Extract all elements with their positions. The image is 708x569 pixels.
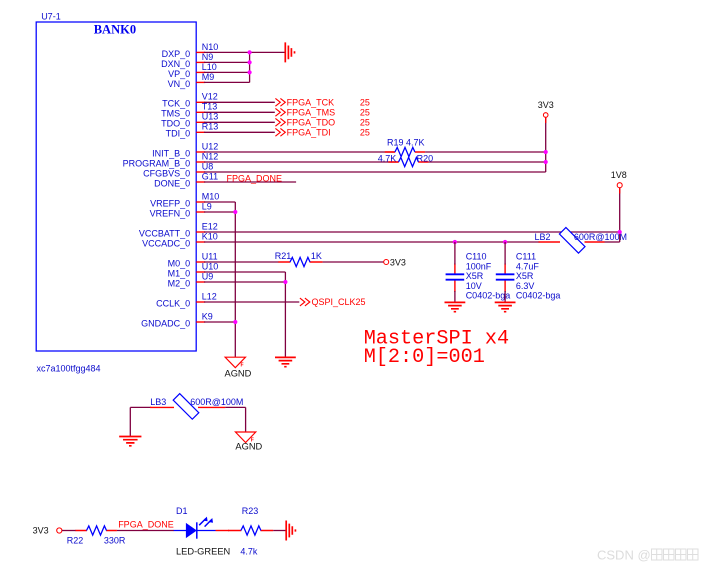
pin INIT_B_0 stub	[196, 151, 205, 153]
resistor R19 pins	[385, 151, 425, 153]
resistor R21 pins	[278, 261, 322, 263]
svg-text:L10: L10	[202, 62, 217, 72]
svg-text:VP_0: VP_0	[168, 69, 190, 79]
wire C111 to ground	[504, 291, 506, 302]
ground GND (LED)	[286, 521, 295, 541]
svg-text:FPGA_TDI: FPGA_TDI	[287, 128, 331, 138]
capacitor C110 leads	[454, 264, 456, 293]
svg-text:1V8: 1V8	[611, 170, 627, 180]
port chevron FPGA_TDI	[275, 128, 285, 136]
svg-text:600R@100M: 600R@100M	[190, 397, 243, 407]
svg-text:M2_0: M2_0	[168, 278, 191, 288]
resistor R21 body	[290, 257, 310, 266]
svg-text:U7-1: U7-1	[41, 12, 61, 22]
svg-text:M1_0: M1_0	[168, 268, 191, 278]
svg-text:25: 25	[360, 128, 370, 138]
svg-text:VCCBATT_0: VCCBATT_0	[139, 228, 190, 238]
wire LB3 to AGND corner	[225, 406, 245, 408]
junction VP/vertical	[248, 70, 252, 74]
svg-text:CSDN @: CSDN @	[597, 548, 651, 563]
svg-text:R19 4.7K: R19 4.7K	[387, 138, 425, 148]
wire VCCADC_0 to LB2	[204, 241, 540, 243]
wire VREFN_0	[204, 211, 235, 213]
resistor R23 pins	[228, 530, 273, 532]
pin TCK_0 stub	[196, 101, 205, 103]
wire R19 to 3V3 rail	[425, 151, 546, 153]
watermark CJK glyph blocks	[652, 549, 663, 560]
svg-text:M9: M9	[202, 72, 215, 82]
svg-text:L9: L9	[202, 201, 212, 211]
junction VREFN/vertical	[233, 210, 237, 214]
svg-text:FPGA_TDO: FPGA_TDO	[287, 118, 336, 128]
svg-text:AGND: AGND	[235, 441, 262, 451]
ground GND (mode pins)	[275, 357, 296, 366]
junction INIT/3V3 rail	[544, 150, 548, 154]
pin DONE_0 stub	[196, 181, 205, 183]
resistor R20 body	[399, 157, 419, 166]
capacitor C111 body	[496, 274, 515, 279]
junction C111/VCCADC	[503, 240, 507, 244]
svg-text:T13: T13	[202, 102, 218, 112]
svg-text:100nF: 100nF	[466, 261, 492, 271]
svg-text:DXN_0: DXN_0	[161, 59, 190, 69]
pin DXP_0 stub	[196, 51, 205, 53]
svg-text:TCK_0: TCK_0	[162, 99, 190, 109]
wire M1/M2 ground vertical	[284, 272, 286, 357]
svg-text:U13: U13	[202, 112, 219, 122]
svg-text:DXP_0: DXP_0	[162, 49, 191, 59]
wire VP_0 row	[204, 71, 250, 73]
wire DONE_0 / FPGA_DONE	[204, 181, 296, 183]
pin PROGRAM_B_0 stub	[196, 161, 205, 163]
IC U7 BANK0 body	[36, 22, 196, 351]
power port 3V3 (M0)	[384, 260, 389, 265]
capacitor C110 body	[446, 274, 465, 279]
svg-text:U8: U8	[202, 161, 214, 171]
wire VCCADC to C111	[504, 242, 506, 265]
port chevron FPGA_TDO	[275, 118, 285, 126]
svg-text:N10: N10	[202, 42, 219, 52]
port chevron FPGA_TMS	[275, 108, 285, 116]
ground GND (LB3 left)	[119, 437, 141, 446]
svg-text:C0402-bga: C0402-bga	[516, 291, 561, 301]
resistor R22 pins	[76, 530, 117, 532]
wire GNDADC_0	[204, 321, 235, 323]
wire LB2 to 1V8 corner	[605, 241, 620, 243]
pin VREFN_0 stub	[196, 211, 205, 213]
resistor R19 body	[395, 147, 415, 156]
svg-text:V12: V12	[202, 92, 218, 102]
svg-text:X5R: X5R	[466, 271, 484, 281]
wire CFGBVS to 3V3 rail	[204, 171, 546, 173]
wire M1_0	[204, 271, 285, 273]
svg-text:U10: U10	[202, 261, 219, 271]
pin VREFP_0 stub	[196, 201, 205, 203]
pin TDO_0 stub	[196, 121, 205, 123]
svg-text:330R: 330R	[104, 535, 126, 545]
svg-text:E12: E12	[202, 221, 218, 231]
svg-text:VCCADC_0: VCCADC_0	[142, 238, 190, 248]
wire 1V8 vertical	[619, 188, 621, 242]
wire C110 to ground	[454, 291, 456, 302]
wire vertical join DX group	[249, 52, 251, 82]
pin VCCBATT_0 stub	[196, 231, 205, 233]
svg-text:R21: R21	[275, 251, 292, 261]
svg-text:DONE_0: DONE_0	[154, 178, 190, 188]
wire VREFP_0	[204, 201, 235, 203]
svg-text:4.7k: 4.7k	[240, 547, 258, 557]
pin VN_0 stub	[196, 81, 205, 83]
svg-text:G11: G11	[202, 171, 218, 181]
pin CFGBVS_0 stub	[196, 171, 205, 173]
pin M0_0 stub	[196, 261, 205, 263]
pin CCLK_0 stub	[196, 301, 205, 303]
ground AGND symbol (LB3)	[235, 432, 255, 443]
svg-text:K10: K10	[202, 231, 218, 241]
svg-text:xc7a100tfgg484: xc7a100tfgg484	[37, 364, 101, 374]
svg-text:INIT_B_0: INIT_B_0	[152, 148, 190, 158]
svg-text:TMS_0: TMS_0	[161, 109, 190, 119]
wire CCLK_0	[204, 301, 299, 303]
svg-text:R13: R13	[202, 122, 219, 132]
power pin stub 3V3	[545, 117, 547, 123]
wire FPGA_TDO	[204, 121, 275, 123]
svg-text:1K: 1K	[311, 251, 322, 261]
pin VP_0 stub	[196, 71, 205, 73]
svg-text:VN_0: VN_0	[168, 79, 191, 89]
LED D1 symbol	[174, 530, 216, 532]
wire DXP_0 row to ground	[204, 51, 285, 53]
wire PROGRAM_B to R20	[204, 161, 398, 163]
wire FPGA_DONE net to LED	[117, 530, 174, 532]
port chevron FPGA_TCK	[275, 98, 285, 106]
svg-text:C0402-bga: C0402-bga	[466, 291, 511, 301]
ground GND (DXP group)	[285, 42, 294, 62]
ferrite bead LB2 pins	[539, 241, 605, 243]
junction VCCBATT/1V8	[618, 230, 622, 234]
wire VCCADC to C110	[454, 242, 456, 265]
svg-text:VREFN_0: VREFN_0	[150, 208, 191, 218]
svg-text:6.3V: 6.3V	[516, 281, 535, 291]
svg-text:FPGA_DONE: FPGA_DONE	[118, 519, 174, 529]
svg-text:LB3: LB3	[150, 397, 166, 407]
wire LB3 left vertical	[129, 407, 131, 436]
power port 1V8	[617, 183, 622, 188]
svg-text:FPGA_TMS: FPGA_TMS	[287, 108, 336, 118]
power port 3V3 (LED)	[57, 528, 62, 533]
svg-text:U11: U11	[202, 251, 218, 261]
svg-text:4.7K: 4.7K	[378, 153, 397, 163]
junction PROGRAM/3V3 rail	[544, 160, 548, 164]
wire R21 to 3V3	[323, 261, 384, 263]
svg-text:TDI_0: TDI_0	[166, 129, 191, 139]
svg-text:3V3: 3V3	[538, 100, 554, 110]
junction DXN/vertical	[248, 60, 252, 64]
svg-text:25: 25	[360, 98, 370, 108]
svg-text:FPGA_TCK: FPGA_TCK	[287, 98, 335, 108]
wire VCCBATT_0 to 1V8	[204, 231, 620, 233]
svg-text:PROGRAM_B_0: PROGRAM_B_0	[123, 158, 191, 168]
ferrite bead LB2 body	[559, 228, 585, 254]
wire M0_0 to R21	[204, 261, 279, 263]
ground GND (C110)	[445, 302, 466, 311]
svg-text:3V3: 3V3	[390, 257, 406, 267]
svg-text:3V3: 3V3	[33, 526, 49, 536]
svg-text:10V: 10V	[466, 281, 482, 291]
pin M2_0 stub	[196, 281, 205, 283]
svg-text:LED-GREEN: LED-GREEN	[176, 547, 230, 557]
svg-text:CFGBVS_0: CFGBVS_0	[143, 168, 190, 178]
junction M2/vertical	[283, 280, 287, 284]
svg-text:R23: R23	[242, 506, 259, 516]
svg-text:VREFP_0: VREFP_0	[150, 198, 190, 208]
svg-text:U9: U9	[202, 271, 214, 281]
pin M1_0 stub	[196, 271, 205, 273]
wire 3V3 to R22	[62, 530, 76, 532]
svg-text:LB2: LB2	[535, 232, 551, 242]
wire R20 to 3V3 rail	[429, 161, 546, 163]
svg-text:M0_0: M0_0	[168, 258, 191, 268]
wire FPGA_TMS	[204, 111, 275, 113]
svg-text:QSPI_CLK25: QSPI_CLK25	[312, 297, 366, 307]
wire INIT_B to R19	[204, 151, 395, 153]
wire FPGA_TDI	[204, 131, 275, 133]
wire 3V3 rail vertical	[545, 117, 547, 172]
svg-text:R22: R22	[67, 535, 84, 545]
ground GND (C111)	[495, 302, 516, 311]
svg-text:D1: D1	[176, 506, 188, 516]
pin TMS_0 stub	[196, 111, 205, 113]
svg-text:25: 25	[360, 108, 370, 118]
svg-text:N12: N12	[202, 151, 219, 161]
port chevron QSPI_CLK	[300, 298, 310, 306]
svg-text:TDO_0: TDO_0	[161, 119, 190, 129]
svg-text:4.7uF: 4.7uF	[516, 261, 540, 271]
svg-text:L12: L12	[202, 291, 217, 301]
svg-text:M[2:0]=001: M[2:0]=001	[364, 346, 485, 369]
wire DXN_0 row	[204, 61, 250, 63]
junction GNDADC/vertical	[233, 320, 237, 324]
resistor R20 pins	[388, 161, 428, 163]
ground AGND symbol (analog)	[225, 357, 245, 368]
power pin stub 1V8	[619, 188, 621, 194]
svg-text:U12: U12	[202, 141, 219, 151]
svg-text:CCLK_0: CCLK_0	[156, 298, 190, 308]
ferrite bead LB3 pins	[150, 406, 225, 408]
svg-text:X5R: X5R	[516, 271, 534, 281]
svg-text:FPGA_DONE: FPGA_DONE	[227, 173, 283, 183]
wire M2_0	[204, 281, 285, 283]
svg-text:N9: N9	[202, 52, 214, 62]
wire VN_0 row	[204, 81, 250, 83]
wire ground to LB3	[130, 406, 151, 408]
wire LB3 right vertical	[245, 407, 247, 432]
svg-text:C110: C110	[466, 252, 487, 262]
power port 3V3 (JTAG pullups)	[543, 113, 548, 118]
svg-text:GNDADC_0: GNDADC_0	[141, 318, 190, 328]
pin VCCADC_0 stub	[196, 241, 205, 243]
wire FPGA_TCK	[204, 101, 275, 103]
resistor R23 body	[241, 526, 261, 535]
junction DXP/vertical	[248, 50, 252, 54]
ferrite bead LB3 body	[173, 394, 199, 420]
pin GNDADC_0 stub	[196, 321, 205, 323]
pin TDI_0 stub	[196, 131, 205, 133]
svg-text:C111: C111	[516, 252, 536, 262]
svg-text:K9: K9	[202, 311, 213, 321]
svg-text:BANK0: BANK0	[94, 23, 136, 37]
svg-text:25: 25	[360, 118, 370, 128]
capacitor C111 leads	[504, 264, 506, 293]
pin DXN_0 stub	[196, 61, 205, 63]
wire R23 to ground	[273, 530, 286, 532]
resistor R22 body	[87, 526, 107, 535]
wire LED to R23	[216, 530, 230, 532]
wire AGND vertical	[234, 202, 236, 357]
junction C110/VCCADC	[453, 240, 457, 244]
svg-text:AGND: AGND	[225, 369, 252, 379]
svg-text:M10: M10	[202, 191, 220, 201]
